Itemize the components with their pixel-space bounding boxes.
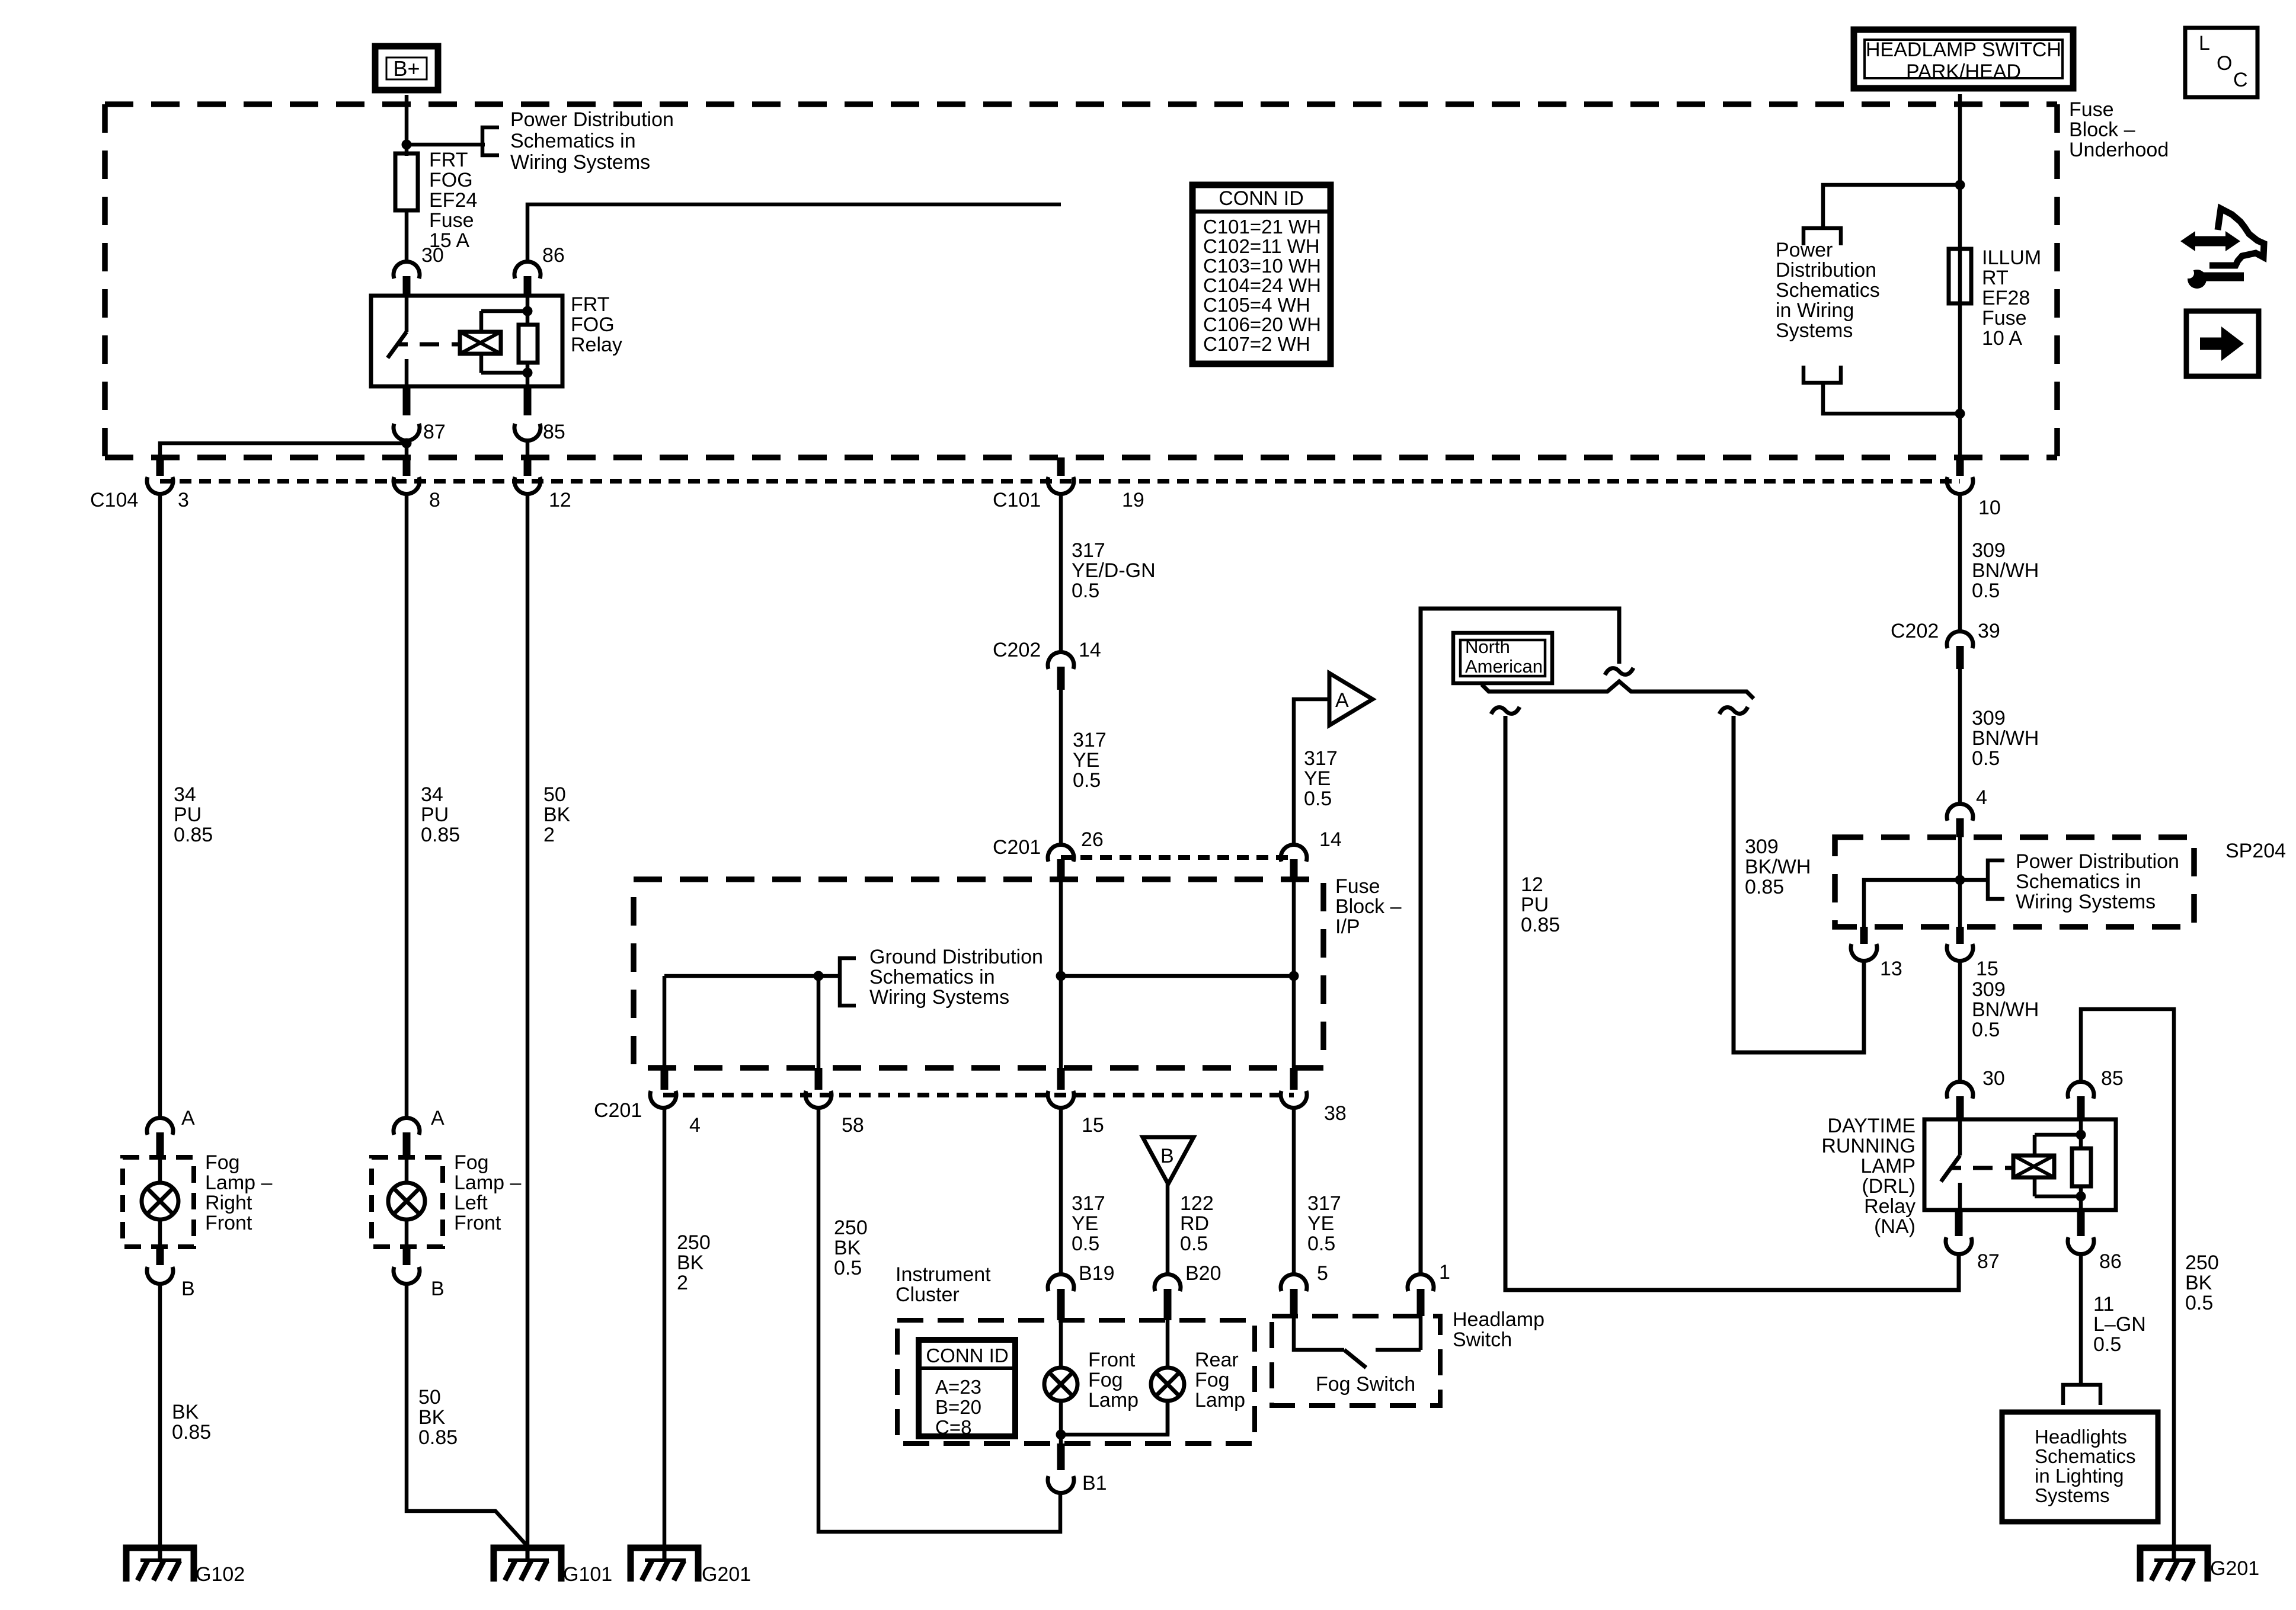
ground G101 bbox=[494, 1545, 561, 1582]
svg-text:B: B bbox=[1160, 1145, 1174, 1167]
svg-text:50: 50 bbox=[418, 1386, 441, 1409]
connector C104 pin 3 bbox=[147, 457, 173, 494]
svg-text:A: A bbox=[181, 1107, 195, 1129]
label: circuit 250 BK 0.5 bbox=[834, 1217, 868, 1279]
connector fog switch pin 5 bbox=[1281, 1274, 1307, 1316]
svg-text:Power Distribution: Power Distribution bbox=[510, 108, 674, 131]
break symbol (left branch) bbox=[1491, 707, 1520, 714]
svg-text:RD: RD bbox=[1180, 1212, 1209, 1235]
reference box: Headlights Schematics in Lighting Systems bbox=[2002, 1412, 2158, 1522]
svg-text:YE: YE bbox=[1307, 1212, 1334, 1235]
svg-text:0.5: 0.5 bbox=[1304, 788, 1332, 810]
svg-text:30: 30 bbox=[1982, 1067, 2005, 1090]
svg-text:50: 50 bbox=[543, 783, 566, 806]
wire DRL pin 86 to headlights reference bbox=[2079, 1254, 2083, 1385]
svg-text:30: 30 bbox=[421, 244, 444, 267]
svg-text:EF28: EF28 bbox=[1982, 287, 2030, 309]
label: circuit 309 BN/WH 0.5 (upper) bbox=[1972, 539, 2039, 602]
wire internal bus to pin 38 wire bbox=[1061, 974, 1294, 978]
off-page triangle A bbox=[1329, 673, 1373, 725]
connector DRL pin 87 bbox=[1946, 1210, 1972, 1254]
svg-text:C101: C101 bbox=[993, 489, 1041, 511]
label: circuit 50 BK 0.85 bbox=[418, 1386, 458, 1449]
svg-text:L: L bbox=[2199, 32, 2210, 55]
svg-text:ILLUM: ILLUM bbox=[1982, 247, 2041, 269]
connector DRL pin 30 bbox=[1947, 1081, 1973, 1119]
svg-text:Fuse: Fuse bbox=[2069, 98, 2114, 121]
wire triangle B to cluster B20 bbox=[1166, 1184, 1170, 1275]
svg-text:C107=2 WH: C107=2 WH bbox=[1203, 333, 1310, 355]
off-page bracket (ground distribution) bbox=[840, 958, 856, 1006]
svg-text:14: 14 bbox=[1319, 828, 1342, 851]
ground G102 bbox=[126, 1545, 194, 1582]
svg-text:B=20: B=20 bbox=[935, 1396, 981, 1418]
svg-text:Fog Switch: Fog Switch bbox=[1316, 1373, 1415, 1395]
svg-text:L–GN: L–GN bbox=[2093, 1313, 2146, 1336]
svg-text:I/P: I/P bbox=[1335, 916, 1360, 938]
label: terminal A (right lamp) bbox=[181, 1107, 195, 1129]
connector pin 85 bbox=[514, 386, 541, 441]
svg-text:Relay: Relay bbox=[571, 334, 622, 356]
svg-text:SP204: SP204 bbox=[2225, 840, 2286, 862]
svg-text:317: 317 bbox=[1072, 1192, 1105, 1215]
svg-text:BN/WH: BN/WH bbox=[1972, 559, 2039, 582]
connector A (right lamp) bbox=[147, 1118, 173, 1157]
svg-text:86: 86 bbox=[2099, 1250, 2122, 1273]
svg-text:Distribution: Distribution bbox=[1776, 259, 1876, 281]
svg-text:Fog: Fog bbox=[205, 1151, 240, 1174]
svg-text:87: 87 bbox=[423, 421, 446, 443]
svg-text:B1: B1 bbox=[1082, 1472, 1107, 1494]
connector pin 87 bbox=[394, 386, 420, 441]
label: C101 bbox=[993, 489, 1041, 511]
label: Front Fog Lamp bbox=[1088, 1349, 1139, 1411]
label: Power Distribution Schematics in Wiring Systems (right) bbox=[1776, 239, 1880, 342]
svg-text:A: A bbox=[431, 1107, 445, 1129]
break symbol (right branch) bbox=[1719, 707, 1748, 714]
label: circuit 122 RD 0.5 bbox=[1180, 1192, 1214, 1255]
svg-text:Rear: Rear bbox=[1195, 1349, 1239, 1371]
svg-text:86: 86 bbox=[542, 244, 565, 267]
node: cluster lamp return junction bbox=[1056, 1430, 1066, 1440]
fuse block I/P dashed box bbox=[634, 879, 1323, 1068]
fuse EF28 ILLUM RT 10 A symbol bbox=[1949, 249, 1971, 303]
svg-text:Headlamp: Headlamp bbox=[1453, 1308, 1544, 1331]
svg-text:15: 15 bbox=[1976, 958, 1998, 980]
svg-text:Front: Front bbox=[205, 1212, 252, 1234]
svg-text:38: 38 bbox=[1324, 1102, 1347, 1125]
svg-text:YE: YE bbox=[1304, 767, 1331, 790]
label: circuit 317 YE 0.5 (B19) bbox=[1072, 1192, 1105, 1255]
svg-text:Schematics: Schematics bbox=[1776, 279, 1880, 302]
label: pin 85 (FRT FOG relay) bbox=[543, 421, 565, 443]
label: C201 (bottom row) bbox=[594, 1099, 642, 1122]
connector headlamp switch pin 1 bbox=[1408, 1274, 1434, 1316]
connector pin 15 bbox=[1048, 1068, 1074, 1108]
wire C201-26 through fuse block to pin 15 bbox=[1059, 879, 1063, 1068]
label: pin 30 (DRL relay) bbox=[1982, 1067, 2005, 1090]
wire pin 4 to ground G201 bbox=[663, 1108, 667, 1545]
label: B20 bbox=[1185, 1262, 1221, 1285]
svg-text:BK/WH: BK/WH bbox=[1745, 856, 1811, 878]
svg-text:C105=4 WH: C105=4 WH bbox=[1203, 294, 1310, 316]
connector B19 bbox=[1048, 1274, 1074, 1320]
svg-text:Fuse: Fuse bbox=[429, 209, 474, 232]
label: pin 4 bbox=[689, 1114, 701, 1137]
wire triangle A to C201 pin 14 bbox=[1294, 699, 1329, 845]
svg-text:Lamp –: Lamp – bbox=[205, 1172, 272, 1194]
connector DRL pin 86 bbox=[2068, 1210, 2094, 1254]
svg-text:19: 19 bbox=[1122, 489, 1144, 511]
svg-text:85: 85 bbox=[543, 421, 565, 443]
label: pin 58 bbox=[842, 1114, 864, 1137]
svg-text:10 A: 10 A bbox=[1982, 327, 2022, 350]
svg-text:Block –: Block – bbox=[2069, 119, 2135, 141]
svg-text:O: O bbox=[2217, 52, 2232, 75]
svg-text:12: 12 bbox=[549, 489, 571, 511]
off-page bracket (headlights) bbox=[2063, 1385, 2100, 1405]
svg-text:RUNNING: RUNNING bbox=[1821, 1135, 1916, 1157]
wire C201-14 through fuse block to pin 38 bbox=[1292, 879, 1296, 1068]
svg-text:317: 317 bbox=[1307, 1192, 1341, 1215]
svg-text:B: B bbox=[431, 1278, 445, 1300]
svg-text:Front: Front bbox=[1088, 1349, 1136, 1371]
label: C202 (right) bbox=[1891, 620, 1939, 642]
svg-text:YE/D-GN: YE/D-GN bbox=[1072, 559, 1156, 582]
svg-text:Lamp –: Lamp – bbox=[454, 1172, 521, 1194]
svg-text:0.5: 0.5 bbox=[1073, 769, 1101, 792]
svg-text:FRT: FRT bbox=[429, 149, 468, 171]
svg-text:C102=11 WH: C102=11 WH bbox=[1203, 235, 1320, 257]
wire lower bracket to junction bbox=[1823, 383, 1960, 414]
svg-text:C106=20 WH: C106=20 WH bbox=[1203, 313, 1321, 335]
off-page triangle B bbox=[1143, 1137, 1194, 1184]
node: junction at pin 15 wire bbox=[1056, 971, 1066, 981]
svg-text:0.85: 0.85 bbox=[421, 824, 460, 846]
wire DRL pin 85 loop to ground G201 bbox=[2081, 1009, 2174, 1545]
svg-text:G201: G201 bbox=[2210, 1557, 2259, 1580]
wire pin 10 to C202 pin 39 bbox=[1958, 494, 1962, 632]
svg-text:15: 15 bbox=[1082, 1114, 1104, 1137]
svg-text:in Wiring: in Wiring bbox=[1776, 299, 1854, 322]
label: FRT FOG EF24 Fuse 15 A bbox=[429, 149, 477, 252]
svg-text:Wiring Systems: Wiring Systems bbox=[510, 151, 650, 174]
node: ground bus junction bbox=[814, 971, 824, 981]
svg-text:1: 1 bbox=[1439, 1261, 1450, 1283]
svg-text:34: 34 bbox=[174, 783, 196, 806]
icon: arrow in box (continuation) bbox=[2186, 311, 2259, 376]
wire pin 12 to ground G101 bbox=[526, 494, 530, 1545]
icon: double arrow with connector outline (repair info) bbox=[2180, 209, 2264, 265]
label: pin 39 bbox=[1978, 620, 2000, 642]
wire C202-14 to C201-26 bbox=[1059, 690, 1063, 845]
svg-text:309: 309 bbox=[1972, 707, 2006, 729]
wire C202-39 to pin 4 bbox=[1958, 669, 1962, 804]
svg-text:RT: RT bbox=[1982, 267, 2009, 289]
wire junction to B1 bbox=[1059, 1435, 1063, 1443]
svg-text:Fuse: Fuse bbox=[1982, 307, 2027, 329]
label: G102 bbox=[196, 1563, 245, 1586]
svg-text:Fog: Fog bbox=[454, 1151, 489, 1174]
svg-text:YE: YE bbox=[1072, 1212, 1098, 1235]
connector plane C104/C101 (dotted line) bbox=[160, 479, 1960, 484]
svg-text:PARK/HEAD: PARK/HEAD bbox=[1906, 60, 2021, 83]
fuse block underhood dashed border (top edge) bbox=[105, 101, 2057, 107]
svg-text:PU: PU bbox=[1521, 894, 1549, 916]
off-page bracket (power distribution, top left) bbox=[482, 127, 499, 155]
svg-text:3: 3 bbox=[178, 489, 189, 511]
connector C202 pin 39 bbox=[1947, 631, 1973, 669]
wire headlamp switch pin 1 up and over (NA loop) bbox=[1421, 609, 1619, 1274]
svg-text:Headlights: Headlights bbox=[2035, 1426, 2127, 1448]
wire splice to pin 13 leg bbox=[1864, 880, 1960, 927]
wire branch to power distribution reference (left leg down) bbox=[1823, 185, 1960, 228]
svg-text:B+: B+ bbox=[393, 56, 420, 81]
svg-text:317: 317 bbox=[1072, 539, 1105, 562]
connector plane C201 bottom (dotted line) bbox=[663, 1093, 1294, 1097]
svg-text:Instrument: Instrument bbox=[896, 1263, 991, 1286]
instrument cluster dashed box bbox=[897, 1320, 1255, 1443]
wire rear lamp to junction bbox=[1061, 1400, 1168, 1435]
label: circuit 34 PU 0.85 (left) bbox=[421, 783, 460, 846]
label: Ground Distribution Schematics in Wiring Systems bbox=[869, 946, 1043, 1009]
svg-text:0.5: 0.5 bbox=[1972, 1019, 2000, 1041]
label: circuit BK 0.85 bbox=[172, 1401, 211, 1443]
label: pin 38 bbox=[1324, 1102, 1347, 1125]
svg-text:C104: C104 bbox=[90, 489, 138, 511]
svg-text:PU: PU bbox=[421, 804, 449, 826]
wire pin 38 to fog switch pin 5 bbox=[1292, 1108, 1296, 1275]
label: pin 14 (C201) bbox=[1319, 828, 1342, 851]
wire left option branch to DRL relay pin 87 bbox=[1505, 716, 1959, 1290]
label: circuit 309 BN/WH 0.5 (middle) bbox=[1972, 707, 2039, 770]
wire relay pin 86 up and right to C101-19 drop bbox=[527, 204, 1061, 261]
svg-text:A: A bbox=[1335, 689, 1349, 712]
bulb: Fog Lamp Left Front bbox=[388, 1157, 425, 1247]
svg-text:Power: Power bbox=[1776, 239, 1833, 261]
svg-text:4: 4 bbox=[1976, 786, 1987, 809]
svg-text:BN/WH: BN/WH bbox=[1972, 727, 2039, 750]
svg-text:Schematics in: Schematics in bbox=[510, 130, 636, 152]
wire through ILLUM fuse bbox=[1958, 187, 1962, 457]
svg-text:0.5: 0.5 bbox=[2185, 1292, 2213, 1314]
svg-text:G201: G201 bbox=[702, 1563, 751, 1586]
wire relay pin 85 down to fuse block exit bbox=[526, 441, 530, 459]
label: pin 12 bbox=[549, 489, 571, 511]
svg-text:(NA): (NA) bbox=[1874, 1215, 1916, 1238]
wire branch to C104 pin 3 bbox=[160, 443, 407, 459]
svg-text:HEADLAMP SWITCH: HEADLAMP SWITCH bbox=[1866, 39, 2061, 61]
label: B19 bbox=[1079, 1262, 1115, 1285]
wire B+ down to fuse EF24 bbox=[405, 95, 409, 156]
wire pin 15 to DRL relay pin 30 bbox=[1958, 961, 1962, 1083]
svg-text:Systems: Systems bbox=[1776, 319, 1853, 342]
svg-text:Schematics: Schematics bbox=[2035, 1445, 2136, 1467]
svg-text:309: 309 bbox=[1745, 836, 1779, 858]
svg-text:250: 250 bbox=[2185, 1251, 2219, 1274]
svg-text:G102: G102 bbox=[196, 1563, 245, 1586]
label: terminal B (left lamp) bbox=[431, 1278, 445, 1300]
label: terminal B (right lamp) bbox=[181, 1278, 195, 1300]
connector C101 pin 19 bbox=[1048, 457, 1074, 494]
label: circuit 317 YE 0.5 (triangle A leg) bbox=[1304, 747, 1338, 810]
label: pin 8 bbox=[429, 489, 440, 511]
svg-text:North: North bbox=[1465, 636, 1510, 657]
relay: FRT FOG Relay bbox=[371, 296, 562, 386]
label: Fuse Block - I/P bbox=[1335, 875, 1402, 938]
svg-text:13: 13 bbox=[1880, 958, 1902, 980]
label: pin 14 (C202) bbox=[1079, 639, 1101, 661]
connector pin 8 bbox=[394, 457, 420, 494]
svg-text:Left: Left bbox=[454, 1192, 488, 1214]
svg-text:DAYTIME: DAYTIME bbox=[1827, 1115, 1916, 1137]
label: pin 86 (DRL relay) bbox=[2099, 1250, 2122, 1273]
label: pin 5 bbox=[1317, 1262, 1328, 1285]
svg-text:122: 122 bbox=[1180, 1192, 1214, 1215]
svg-text:0.5: 0.5 bbox=[1072, 1233, 1099, 1255]
svg-text:Lamp: Lamp bbox=[1195, 1389, 1245, 1411]
svg-text:B: B bbox=[181, 1278, 195, 1300]
svg-text:26: 26 bbox=[1081, 828, 1104, 851]
svg-text:0.5: 0.5 bbox=[1307, 1233, 1335, 1255]
connector pin 10 bbox=[1947, 457, 1973, 494]
label: Headlamp Switch bbox=[1453, 1308, 1544, 1351]
off-page bracket (power distribution, lower) bbox=[1803, 366, 1841, 383]
node: splice SP204 junction bbox=[1955, 875, 1965, 885]
svg-text:0.5: 0.5 bbox=[1972, 747, 2000, 770]
label: Power Distribution Schematics in Wiring Systems (top left) bbox=[510, 108, 674, 174]
label: circuit 250 BK 0.5 (right) bbox=[2185, 1251, 2219, 1314]
connector C201 pin 26 bbox=[1048, 844, 1074, 879]
wire pin 15 to cluster B19 bbox=[1059, 1108, 1063, 1275]
label: Fog Switch bbox=[1316, 1373, 1415, 1395]
svg-text:C=8: C=8 bbox=[935, 1416, 971, 1438]
svg-text:34: 34 bbox=[421, 783, 443, 806]
wire relay pin 87 down to fuse block exit bbox=[405, 441, 409, 459]
wire pin 58 to cluster B1 bbox=[818, 1108, 1060, 1532]
fog switch contacts and blade bbox=[1294, 1316, 1421, 1368]
svg-text:58: 58 bbox=[842, 1114, 864, 1137]
North American callout box bbox=[1453, 633, 1552, 683]
label: circuit 50 BK 2 bbox=[543, 783, 571, 846]
label: pin 1 bbox=[1439, 1261, 1450, 1283]
label: C202 (middle) bbox=[993, 639, 1041, 661]
label: Rear Fog Lamp bbox=[1195, 1349, 1245, 1411]
svg-text:0.5: 0.5 bbox=[1180, 1233, 1208, 1255]
svg-text:C201: C201 bbox=[594, 1099, 642, 1122]
label: DAYTIME RUNNING LAMP (DRL) Relay (NA) bbox=[1821, 1115, 1916, 1238]
svg-text:Underhood: Underhood bbox=[2069, 139, 2169, 161]
svg-text:C104=24 WH: C104=24 WH bbox=[1203, 274, 1321, 296]
svg-text:85: 85 bbox=[2101, 1067, 2124, 1090]
svg-text:Fuse: Fuse bbox=[1335, 875, 1380, 898]
ground G201 (left) bbox=[631, 1545, 698, 1582]
svg-text:C201: C201 bbox=[993, 836, 1041, 859]
node: illum branch junction (top) bbox=[1955, 180, 1965, 190]
ground G201 (right) bbox=[2140, 1545, 2208, 1582]
svg-text:Systems: Systems bbox=[2035, 1484, 2110, 1506]
splice SP204 dashed box bbox=[1835, 837, 2194, 927]
off-page bracket (power distribution, upper) bbox=[1803, 228, 1841, 245]
connector A (left lamp) bbox=[394, 1118, 420, 1157]
connector DRL pin 85 bbox=[2068, 1081, 2094, 1119]
label: pin 26 bbox=[1081, 828, 1104, 851]
svg-text:2: 2 bbox=[543, 824, 555, 846]
node: B+ branch junction bbox=[402, 140, 412, 150]
svg-text:Relay: Relay bbox=[1864, 1195, 1916, 1218]
svg-text:B20: B20 bbox=[1185, 1262, 1221, 1285]
svg-text:Front: Front bbox=[454, 1212, 501, 1234]
svg-text:5: 5 bbox=[1317, 1262, 1328, 1285]
connector pin 58 bbox=[805, 1068, 832, 1108]
svg-text:BK: BK bbox=[834, 1237, 861, 1259]
label: pin 15 (SP204) bbox=[1976, 958, 1998, 980]
wire fuse to relay pin 30 bbox=[405, 210, 409, 263]
fog lamp left front dashed box bbox=[372, 1157, 443, 1247]
option split bar bbox=[1482, 681, 1754, 699]
label: pin 85 (DRL relay) bbox=[2101, 1067, 2124, 1090]
svg-text:G101: G101 bbox=[563, 1563, 612, 1586]
svg-text:BK: BK bbox=[418, 1406, 446, 1429]
label: Fuse Block - Underhood bbox=[2069, 98, 2169, 161]
svg-text:39: 39 bbox=[1978, 620, 2000, 642]
label: circuit 317 YE 0.5 (upper) bbox=[1073, 729, 1107, 792]
label: pin 30 (FRT FOG relay) bbox=[421, 244, 444, 267]
wire right option branch to SP204 pin 13 bbox=[1734, 716, 1864, 1052]
svg-text:C: C bbox=[2233, 69, 2248, 91]
svg-text:0.85: 0.85 bbox=[1745, 876, 1784, 898]
label: B1 bbox=[1082, 1472, 1107, 1494]
CONN ID table (cluster A/B/C) bbox=[919, 1340, 1015, 1438]
connector pin 30 bbox=[394, 261, 420, 296]
svg-text:B19: B19 bbox=[1079, 1262, 1115, 1285]
label: G101 bbox=[563, 1563, 612, 1586]
label: circuit 34 PU 0.85 (right) bbox=[174, 783, 213, 846]
fuse block underhood dashed border (right edge) bbox=[2054, 104, 2060, 457]
connector pin 86 bbox=[514, 261, 541, 296]
svg-text:Wiring Systems: Wiring Systems bbox=[869, 986, 1009, 1009]
svg-text:Cluster: Cluster bbox=[896, 1283, 960, 1306]
HEADLAMP SWITCH PARK/HEAD terminal box bbox=[1854, 30, 2073, 88]
svg-text:BK: BK bbox=[543, 804, 571, 826]
label: Fog Lamp - Left Front bbox=[454, 1151, 521, 1234]
svg-text:Lamp: Lamp bbox=[1088, 1389, 1139, 1411]
svg-text:Power Distribution: Power Distribution bbox=[2016, 850, 2179, 873]
connector plane C201 (dotted line) bbox=[1061, 855, 1294, 860]
label: C201 (middle) bbox=[993, 836, 1041, 859]
label: Power Distribution Schematics in Wiring Systems (SP204) bbox=[2016, 850, 2179, 913]
svg-text:250: 250 bbox=[834, 1217, 868, 1239]
connector pin 15 (SP204) bbox=[1947, 927, 1973, 961]
connector pin 13 bbox=[1851, 927, 1877, 961]
svg-text:CONN ID: CONN ID bbox=[926, 1345, 1008, 1366]
svg-text:309: 309 bbox=[1972, 978, 2006, 1001]
svg-text:FRT: FRT bbox=[571, 293, 609, 316]
label: pin 3 bbox=[178, 489, 189, 511]
svg-text:11: 11 bbox=[2093, 1293, 2114, 1315]
svg-text:LAMP: LAMP bbox=[1860, 1155, 1916, 1177]
label: FRT FOG Relay bbox=[571, 293, 622, 356]
wire bus to pin 4 bbox=[663, 976, 667, 1068]
wire lamp left to G101 bbox=[407, 1284, 526, 1545]
svg-text:BK: BK bbox=[172, 1401, 199, 1423]
label: circuit 309 BK/WH 0.85 bbox=[1745, 836, 1811, 898]
svg-text:317: 317 bbox=[1304, 747, 1338, 770]
svg-text:250: 250 bbox=[677, 1231, 711, 1254]
svg-text:BK: BK bbox=[677, 1251, 704, 1274]
connector B (right lamp) bbox=[147, 1247, 173, 1284]
icon: wrench bbox=[2183, 268, 2244, 289]
